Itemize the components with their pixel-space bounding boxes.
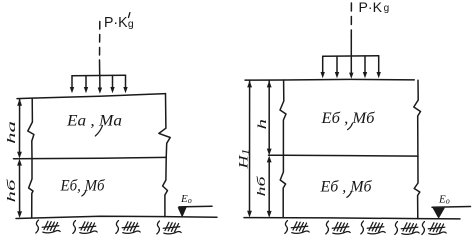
svg-text:Eб , Mб: Eб , Mб bbox=[320, 110, 375, 127]
svg-text:g: g bbox=[384, 3, 390, 14]
svg-text:hб: hб bbox=[4, 178, 18, 203]
svg-text:ha: ha bbox=[4, 121, 18, 144]
svg-text:h: h bbox=[255, 119, 269, 130]
svg-text:Eб , Mб: Eб , Mб bbox=[319, 179, 372, 196]
svg-text:P·K: P·K bbox=[104, 15, 128, 31]
svg-text:hб: hб bbox=[254, 175, 268, 197]
svg-text:P·K: P·K bbox=[359, 0, 383, 15]
svg-text:g: g bbox=[128, 18, 134, 30]
svg-text:Ea , Ma: Ea , Ma bbox=[66, 113, 122, 130]
svg-text:Eб, Mб: Eб, Mб bbox=[60, 178, 106, 195]
